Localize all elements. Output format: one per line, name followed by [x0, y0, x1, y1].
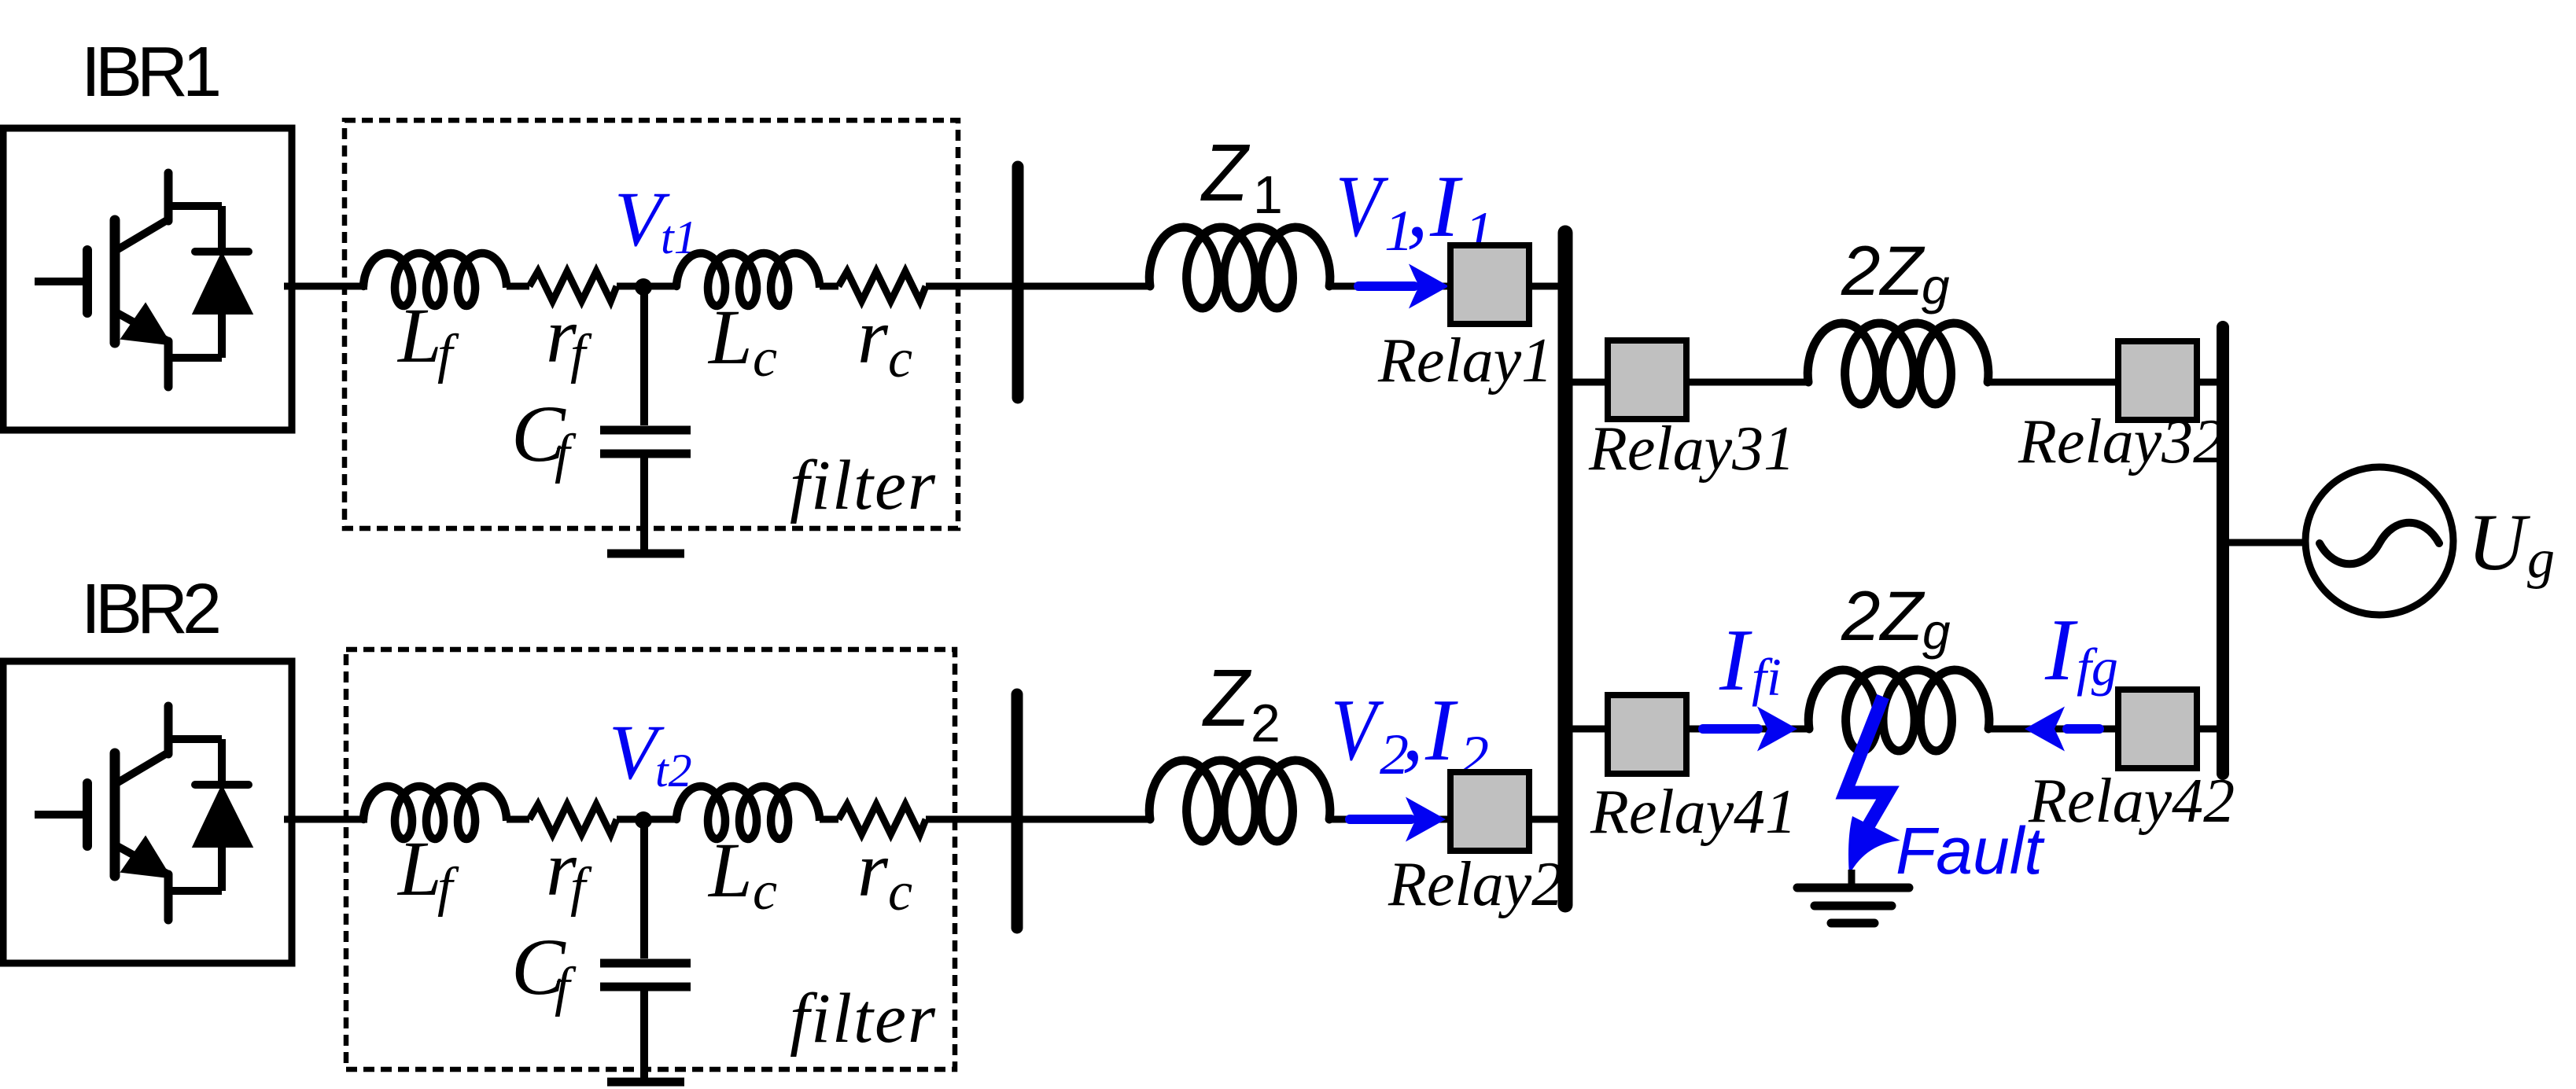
inductor Lf (filter1) [363, 253, 507, 306]
wire Cf to ground (filter1) [640, 458, 648, 553]
wire 2Zg to Relay42 [1989, 726, 2118, 733]
svg-text:IBR2: IBR2 [81, 570, 219, 649]
wire IBR1 to filter1 [284, 283, 367, 290]
svg-text:g: g [2527, 529, 2555, 590]
svg-text:Fault: Fault [1896, 814, 2045, 888]
ground bar (filter2) [607, 1078, 684, 1087]
svg-text:filter: filter [790, 980, 937, 1058]
relay Relay31 [1608, 340, 1686, 419]
fault lightning bolt [1845, 697, 1888, 830]
wire Relay42 to right bus [2197, 726, 2223, 733]
wire Relay1 to main bus [1529, 283, 1565, 290]
svg-text:,: , [1402, 682, 1424, 779]
converter U2 (IBR2 inverter box with IGBT and antiparallel diode) [3, 661, 292, 963]
relay Relay2 [1450, 772, 1529, 851]
wire rc to bus1 [926, 283, 1015, 290]
svg-text:I: I [1719, 612, 1752, 709]
wire Lc to rc [820, 283, 838, 290]
current arrow Ifg [2067, 724, 2099, 734]
svg-text:1: 1 [1253, 165, 1283, 225]
filter1 dashed box [345, 120, 958, 528]
svg-text:I: I [1429, 158, 1463, 256]
svg-text:r: r [857, 826, 889, 913]
inductor Lc (filter2) [676, 786, 820, 839]
ground (fault) [1797, 884, 1909, 892]
relay Relay32 [2118, 341, 2197, 420]
capacitor Cf plates (filter1) [600, 426, 691, 435]
inductor 2Zg (lower line) [1808, 670, 1989, 751]
ground bar (filter1) [607, 550, 684, 558]
svg-text:c: c [888, 329, 912, 389]
wire bus2 to Z2 [1017, 816, 1152, 823]
wire Cf to ground (filter2) [640, 991, 648, 1081]
svg-text:L: L [396, 292, 442, 379]
svg-text:V: V [1331, 682, 1384, 779]
filter2 dashed box [346, 649, 955, 1069]
wire IBR2 to filter2 [284, 816, 367, 823]
svg-text:2Z: 2Z [1841, 576, 1925, 655]
svg-text:filter: filter [790, 447, 937, 524]
wire rf to node Vt2 [617, 816, 678, 823]
relay Relay42 [2118, 690, 2197, 768]
resistor rc (filter1) [838, 271, 926, 301]
svg-text:2: 2 [1251, 694, 1281, 753]
wire Lf to rf (filter2) [507, 816, 529, 823]
bus B2 (IBR2 terminal bus) [1012, 694, 1023, 928]
resistor rf (filter1) [529, 271, 617, 301]
svg-text:L: L [707, 293, 753, 381]
capacitor Cf (filter2) wire from node [640, 820, 648, 958]
current arrow V2,I2 [1350, 815, 1411, 824]
inductor Z2 [1149, 760, 1330, 841]
resistor rc (filter2) [838, 804, 926, 834]
svg-text:,: , [1406, 158, 1428, 256]
svg-text:fg: fg [2077, 637, 2118, 697]
svg-text:Relay42: Relay42 [2028, 767, 2235, 836]
main bus (center) [1558, 233, 1573, 905]
svg-text:V: V [1336, 158, 1389, 256]
wire main bus to Relay31 [1565, 379, 1608, 386]
svg-text:fi: fi [1752, 647, 1782, 707]
svg-text:g: g [1922, 603, 1951, 660]
svg-text:L: L [396, 825, 442, 912]
svg-text:Z: Z [1200, 128, 1251, 219]
relay Relay41 [1608, 695, 1686, 774]
wire rf to node Vt1 [617, 283, 678, 290]
wire bus1 to Z1 [1018, 283, 1152, 290]
wire Lf to rf [507, 283, 529, 290]
wire Relay41 to 2Zg lower [1686, 726, 1811, 733]
svg-text:r: r [857, 292, 889, 380]
svg-text:I: I [1424, 682, 1458, 779]
svg-text:Relay32: Relay32 [2018, 407, 2224, 476]
svg-text:U: U [2467, 498, 2530, 587]
node Vt1 junction dot [635, 278, 652, 296]
svg-text:Relay31: Relay31 [1588, 414, 1795, 484]
capacitor Cf (filter1) wire from node [640, 287, 648, 425]
current arrow V1,I1 [1358, 281, 1414, 291]
wire Z2 to Relay2 [1330, 816, 1450, 823]
wire rc to bus2 [926, 816, 1015, 823]
svg-text:Relay1: Relay1 [1377, 326, 1553, 395]
wire Relay2 to main bus [1529, 816, 1565, 823]
wire Relay31 to 2Zg upper [1686, 379, 1811, 386]
current arrow Ifi [1703, 724, 1758, 734]
svg-text:2Z: 2Z [1841, 231, 1925, 310]
converter U1 (IBR1 inverter box with IGBT and antiparallel diode) [3, 128, 292, 430]
svg-text:g: g [1922, 258, 1950, 315]
svg-text:c: c [888, 862, 912, 922]
inductor 2Zg (upper line) [1808, 323, 1988, 404]
wire fault to ground [1848, 870, 1856, 885]
svg-text:IBR1: IBR1 [81, 33, 219, 112]
svg-text:L: L [707, 826, 753, 914]
capacitor Cf plates (filter2) [600, 959, 691, 968]
wire Z1 to Relay1 [1330, 283, 1450, 290]
node Vt2 junction dot [635, 811, 652, 829]
svg-text:Relay2: Relay2 [1388, 850, 1563, 919]
svg-text:Z: Z [1202, 653, 1252, 744]
svg-text:I: I [2044, 602, 2078, 699]
relay Relay1 [1450, 245, 1529, 324]
resistor rf (filter2) [529, 804, 617, 834]
svg-text:c: c [753, 861, 777, 922]
inductor Z1 [1149, 227, 1330, 308]
wire right bus to Ug source [2223, 539, 2306, 546]
right bus (grid bus) [2217, 327, 2229, 774]
wire Relay32 to right bus [2197, 379, 2223, 386]
wire main bus to Relay41 [1565, 726, 1608, 733]
svg-text:Relay41: Relay41 [1590, 778, 1797, 847]
source Ug (grid AC source) [2305, 467, 2453, 615]
wire 2Zg to Relay32 [1988, 379, 2118, 386]
wire Lc to rc (filter2) [820, 816, 838, 823]
inductor Lc (filter1) [676, 253, 820, 306]
inductor Lf (filter2) [363, 786, 507, 839]
svg-text:c: c [753, 328, 777, 388]
bus B1 (IBR1 terminal bus) [1012, 167, 1024, 398]
